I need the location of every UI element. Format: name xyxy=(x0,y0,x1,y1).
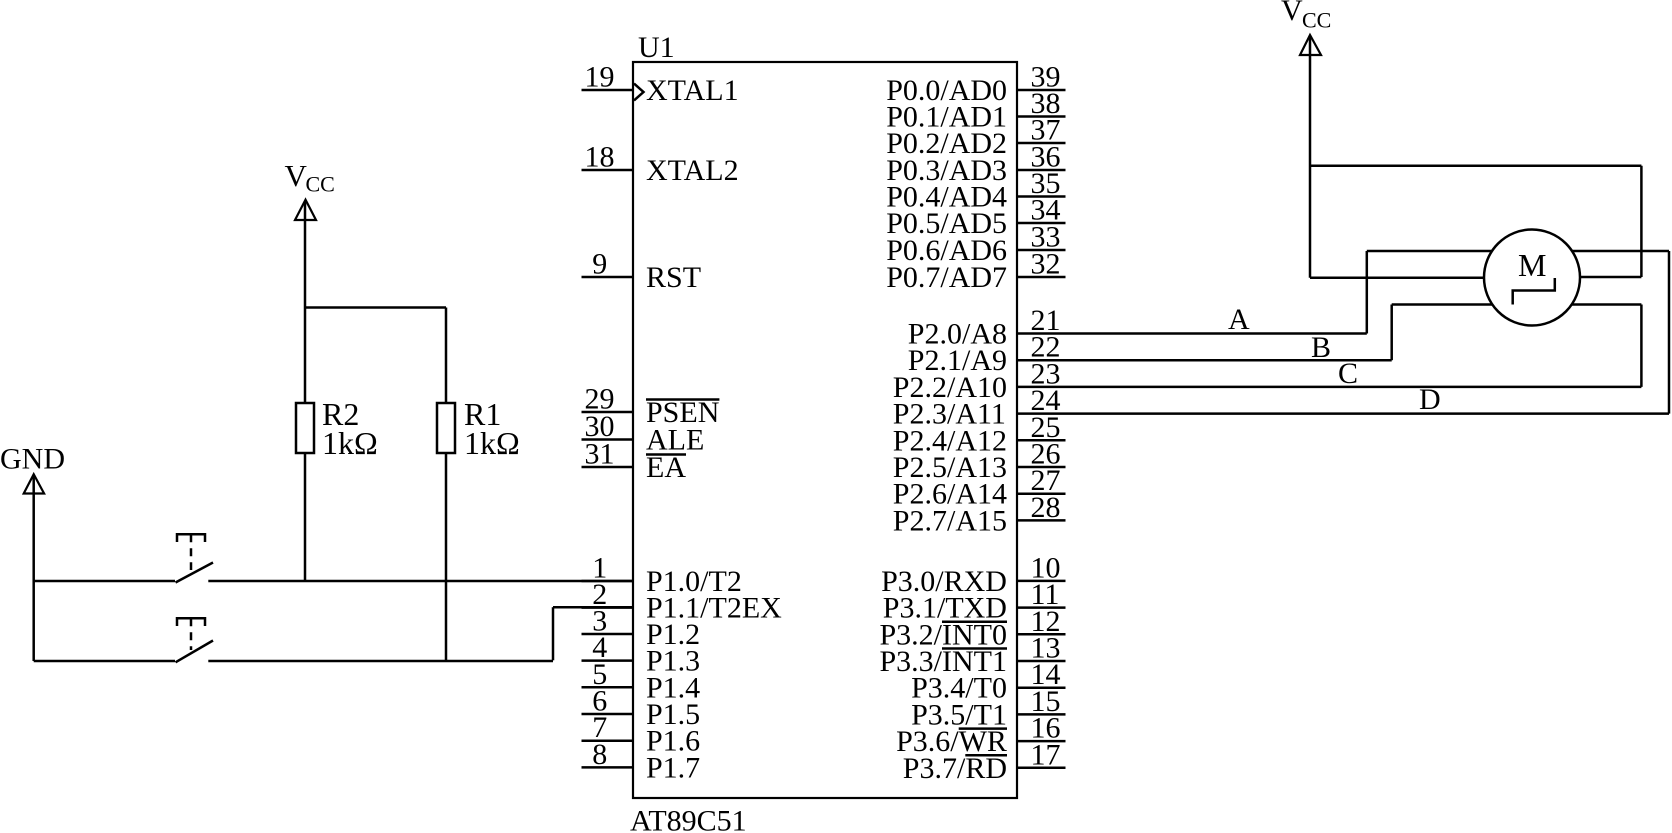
pin 21 P2.0/A8 (right) xyxy=(908,304,1061,351)
pin 9 RST (left) xyxy=(582,248,702,295)
pin 19 XTAL1 (left) xyxy=(582,61,739,108)
svg-text:RST: RST xyxy=(646,261,701,294)
pin 22 P2.1/A9 (right) xyxy=(908,331,1061,378)
net label C xyxy=(1338,357,1358,390)
svg-text:31: 31 xyxy=(585,438,615,471)
net label A xyxy=(1228,303,1250,336)
resistor R2 1kΩ xyxy=(296,308,378,462)
wire VCC down xyxy=(1309,37,1312,278)
svg-text:M: M xyxy=(1518,247,1546,283)
wire S1 to pin P1.0 xyxy=(208,580,633,583)
pin 10 P3.0/RXD (right) xyxy=(881,551,1065,598)
pin 28 P2.7/A15 (right) xyxy=(893,491,1066,538)
svg-text:GND: GND xyxy=(0,443,65,476)
svg-text:XTAL2: XTAL2 xyxy=(646,154,739,187)
svg-text:C: C xyxy=(1338,357,1358,390)
pin 7 P1.6 (left) xyxy=(582,711,701,758)
pin 36 P0.3/AD3 (right) xyxy=(886,141,1065,188)
wire up to pin P1.1 xyxy=(553,607,633,660)
svg-text:V: V xyxy=(1281,0,1303,27)
svg-text:8: 8 xyxy=(592,738,607,771)
wire VCC top rail to right xyxy=(1310,164,1641,167)
svg-text:XTAL1: XTAL1 xyxy=(646,74,739,107)
svg-text:32: 32 xyxy=(1031,248,1061,281)
pin 13 P3.3/INT1 (right) xyxy=(880,632,1066,679)
pin 35 P0.4/AD4 (right) xyxy=(886,167,1065,214)
wire R2 bottom to P1.0 net xyxy=(304,453,307,581)
pin 31 EA (left) xyxy=(582,438,687,485)
pin 1 P1.0/T2 (left) xyxy=(582,552,742,599)
pin 12 P3.2/INT0 (right) xyxy=(880,605,1066,652)
svg-text:CC: CC xyxy=(306,172,335,197)
pin 37 P0.2/AD2 (right) xyxy=(886,114,1065,161)
svg-text:18: 18 xyxy=(585,141,615,174)
wire A: P2.0 to motor xyxy=(1017,251,1492,334)
svg-text:AT89C51: AT89C51 xyxy=(630,805,747,833)
wire R1 bottom to P1.1 net xyxy=(445,453,448,661)
pin 33 P0.6/AD6 (right) xyxy=(886,221,1065,268)
wire S2 right segment xyxy=(208,660,553,663)
pin 14 P3.4/T0 (right) xyxy=(911,658,1065,705)
part value AT89C51 xyxy=(630,805,747,833)
pin 34 P0.5/AD5 (right) xyxy=(886,194,1065,241)
pin 6 P1.5 (left) xyxy=(582,685,701,732)
IC U1 AT89C51 body xyxy=(633,62,1017,798)
pin 25 P2.4/A12 (right) xyxy=(893,411,1066,458)
svg-text:1kΩ: 1kΩ xyxy=(322,425,378,461)
switch S1 (pushbutton) xyxy=(176,534,214,582)
pin 32 P0.7/AD7 (right) xyxy=(886,248,1065,295)
svg-text:28: 28 xyxy=(1031,491,1061,524)
svg-text:19: 19 xyxy=(585,61,615,94)
svg-text:V: V xyxy=(285,158,308,193)
pin 18 XTAL2 (left) xyxy=(582,141,739,188)
pin 39 P0.0/AD0 (right) xyxy=(886,61,1065,108)
clock input caret on XTAL1 xyxy=(634,84,644,101)
pin 30 ALE (left) xyxy=(582,410,705,457)
net label D xyxy=(1419,383,1441,416)
net label B xyxy=(1311,331,1331,364)
ground symbol GND xyxy=(0,443,65,662)
pin 23 P2.2/A10 (right) xyxy=(893,357,1061,404)
wire to motor left center tap xyxy=(1310,276,1484,279)
wire C: P2.2 to motor xyxy=(1017,305,1641,387)
wire VCC down to junction xyxy=(304,201,307,308)
wire VCC right drop xyxy=(1640,166,1643,277)
pin 2 P1.1/T2EX (left) xyxy=(582,578,783,625)
svg-text:EA: EA xyxy=(646,451,686,484)
svg-text:D: D xyxy=(1419,383,1441,416)
pin 24 P2.3/A11 (right) xyxy=(893,384,1061,431)
wire GND to switch S1 xyxy=(34,580,175,583)
svg-text:1kΩ: 1kΩ xyxy=(464,425,520,461)
wire to motor right center tap xyxy=(1580,276,1641,279)
svg-text:P0.7/AD7: P0.7/AD7 xyxy=(886,261,1007,294)
svg-text:9: 9 xyxy=(592,248,607,281)
resistor R1 1kΩ xyxy=(437,308,520,462)
motor M (stepper) xyxy=(1484,230,1580,326)
svg-text:U1: U1 xyxy=(638,31,675,64)
pin 8 P1.7 (left) xyxy=(582,738,701,785)
pin 27 P2.6/A14 (right) xyxy=(893,464,1066,511)
svg-text:B: B xyxy=(1311,331,1331,364)
svg-text:17: 17 xyxy=(1031,738,1061,771)
pin 26 P2.5/A13 (right) xyxy=(893,438,1066,485)
pin 15 P3.5/T1 (right) xyxy=(911,685,1065,732)
pin 16 P3.6/WR (right) xyxy=(896,712,1065,759)
wire junction to R1 top xyxy=(305,306,446,309)
switch S2 (pushbutton) xyxy=(176,618,214,662)
power symbol VCC (right) xyxy=(1281,0,1331,55)
wire GND to switch S2 xyxy=(34,660,175,663)
pin 3 P1.2 (left) xyxy=(582,605,701,652)
pin 11 P3.1/TXD (right) xyxy=(883,578,1066,625)
power symbol VCC (left) xyxy=(285,158,335,220)
reference designator U1 xyxy=(638,31,675,64)
pin 4 P1.3 (left) xyxy=(582,631,701,678)
wire B: P2.1 to motor xyxy=(1017,305,1492,361)
wire D: P2.3 to motor xyxy=(1017,251,1669,414)
pin 29 PSEN (left) xyxy=(582,383,720,430)
svg-text:P2.7/A15: P2.7/A15 xyxy=(893,504,1007,537)
svg-text:P1.7: P1.7 xyxy=(646,751,700,784)
pin 5 P1.4 (left) xyxy=(582,658,701,705)
svg-text:CC: CC xyxy=(1302,8,1331,33)
svg-text:A: A xyxy=(1228,303,1250,336)
pin 17 P3.7/RD (right) xyxy=(903,738,1066,785)
svg-text:P3.7/RD: P3.7/RD xyxy=(903,752,1007,785)
pin 38 P0.1/AD1 (right) xyxy=(886,87,1065,134)
